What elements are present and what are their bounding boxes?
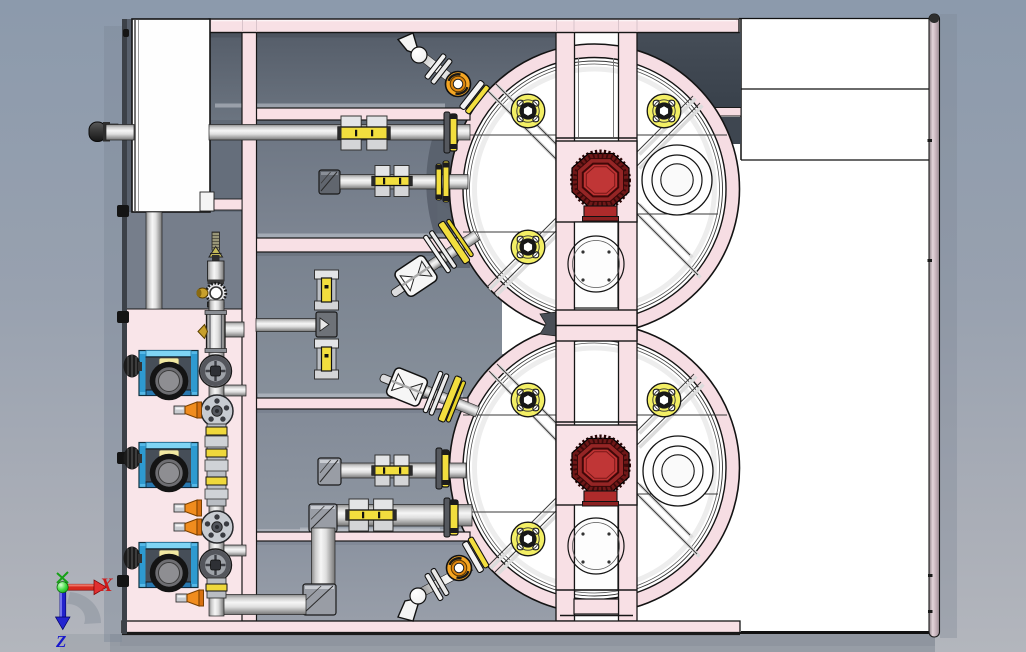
valve AV2 stem	[390, 282, 408, 298]
pink beam sliver right of T1	[706, 108, 741, 117]
valve assembly AV1 stem pipe	[414, 48, 468, 93]
vertical pink column	[242, 32, 257, 621]
pipe B tank entry flange rings	[436, 164, 442, 200]
valve W1 gate valve handwheel	[200, 355, 232, 387]
edge clamp nubs	[117, 205, 129, 587]
tank T1 nozzle flange F1 (yellow)	[511, 94, 545, 128]
tank T2 roof brace seams	[491, 367, 704, 575]
tank T2 manway cover	[643, 436, 713, 506]
rail plate edge lines above motor	[578, 58, 580, 137]
tank T1 manway cover	[642, 145, 712, 215]
valve AV1 yellow gasket ring	[465, 84, 490, 114]
pipe A end cap	[89, 122, 106, 142]
valve assembly AV4 stem pipe	[414, 562, 473, 599]
triad shadow	[67, 592, 101, 624]
triad origin ball (green)	[57, 582, 68, 593]
valve AV3 yellow ring 1	[438, 375, 462, 422]
pipe C tank entry flange rings	[436, 448, 442, 489]
agitator motor M2 (red) on tank T2	[572, 438, 629, 506]
injector J1 orange injector cone	[174, 402, 202, 418]
frame bay bottom	[256, 541, 574, 621]
platform divider line 2	[741, 159, 929, 161]
dark pipe elbow stub left of center rail	[540, 312, 557, 336]
frame bay with feed pipes	[210, 120, 574, 238]
valve AV4 handwheel funnel	[398, 598, 420, 621]
vertical drop pipe under control box	[146, 212, 162, 309]
white deck between tanks right of rails	[637, 240, 741, 632]
coupling CP-V1 vertical union coupling	[315, 270, 339, 310]
platform left edge line	[740, 18, 742, 160]
bearing plate below motor M2	[575, 505, 619, 590]
left frame edge	[122, 19, 127, 634]
vertical standpipe right edge	[929, 14, 940, 637]
valve AV2 white flange 1	[423, 235, 451, 274]
valve AV4 outlet flange	[462, 541, 484, 573]
valve AV1 ball	[411, 47, 427, 63]
frame bay upper-left (dark)	[210, 32, 574, 120]
horizontal beam y108	[256, 108, 470, 120]
wire pipe D horizontal run	[337, 505, 472, 527]
valve AV3 yellow ring 2	[446, 380, 466, 422]
standpipe weld marks	[928, 139, 933, 613]
top frame bar	[209, 19, 739, 33]
valve AV4 flange disk 2	[430, 568, 449, 596]
pink sliver right of box footer	[214, 199, 242, 210]
horizontal beam y532	[256, 532, 470, 541]
manifold branch stub 2	[224, 545, 246, 556]
coupling CP-A on pipe A union coupling	[338, 116, 390, 150]
small white footer under box	[200, 192, 214, 211]
relief valve RV1 threaded stem	[212, 232, 220, 250]
wire bottom pipe run to manifold	[220, 595, 306, 615]
flange FD1 blind flange disk	[201, 395, 233, 427]
valve AV4 ball	[410, 588, 426, 604]
wire pipe C horizontal run	[341, 463, 466, 478]
frame bay lower-mid	[256, 409, 574, 529]
rail cross line	[556, 421, 637, 423]
valve AV3 white flange 1	[423, 371, 444, 413]
shadow block below pipe B at tank T1	[437, 200, 470, 268]
svg-text:Z: Z	[55, 632, 66, 651]
pump bay mounting plate	[126, 309, 242, 621]
tank T2 nozzle flange F3 (yellow)	[511, 522, 545, 556]
wire pipe A horizontal run	[209, 125, 470, 141]
strip left of white box	[126, 19, 132, 212]
injector J2 orange injector cone	[174, 500, 202, 516]
dosing pump P1	[124, 351, 199, 398]
tank T1 nozzle flange F3 (yellow)	[511, 230, 545, 264]
tank T2 nozzle flange F1 (yellow)	[511, 383, 545, 417]
relief valve RV1 handwheel	[206, 283, 226, 303]
coupling CP-C on pipe C union coupling	[372, 455, 412, 486]
flange FD2 blind flange disk	[201, 511, 233, 543]
horizontal beam y238	[256, 238, 462, 252]
coupling CP-V2 vertical union coupling	[315, 339, 339, 379]
platform divider line 1	[741, 88, 929, 90]
center rail right	[619, 32, 638, 621]
valve AV2 yellow ring 2	[446, 219, 474, 258]
relief valve RV1 body	[212, 255, 220, 263]
manifold fitting stack	[205, 424, 228, 506]
elbow E-D upper pipe elbow	[309, 504, 337, 532]
tank T1 shell rim	[450, 44, 740, 334]
wire pipe D vertical drop	[312, 528, 336, 588]
valve AV4 orange butterfly valve	[447, 556, 472, 581]
coupling CP-B on pipe B union coupling	[372, 166, 412, 197]
svg-text:X: X	[99, 575, 114, 596]
injector J3 orange injector cone	[174, 519, 202, 535]
relief valve RV1 base	[208, 302, 225, 307]
valve AV1 orange butterfly valve	[446, 72, 471, 97]
manifold bottom fitting	[206, 578, 227, 598]
white strip between center rails	[574, 32, 619, 632]
frame bay mid	[256, 252, 574, 398]
inter-tank rung	[556, 310, 637, 341]
bay left of column	[122, 212, 242, 309]
standpipe top cap	[929, 14, 939, 23]
agitator mount plate tank T2	[556, 425, 637, 505]
manifold branch stub 1	[224, 385, 246, 396]
dark pocket above tank T1 right	[637, 32, 741, 107]
dosing pump P3	[124, 543, 199, 590]
pipe A tank entry flange rings	[444, 112, 450, 153]
wire pipe B horizontal run	[340, 175, 468, 190]
valve AV2 body	[393, 254, 439, 298]
valve AV4 flange disk 1	[424, 573, 443, 601]
bearing plate below motor M1	[575, 222, 619, 308]
shadow right of standpipe	[940, 14, 957, 638]
valve AV2 yellow ring 1	[438, 221, 471, 265]
valve W2 gate valve handwheel	[200, 549, 232, 581]
floor shadow under skid	[110, 634, 935, 652]
valve assembly AV3 diagonal pipe	[407, 379, 480, 417]
wire branch stub from column to cross	[256, 319, 318, 332]
bay inner shadows	[210, 33, 574, 38]
triad Z axis (blue)	[55, 590, 70, 651]
agitator mount plate tank T1	[556, 141, 637, 222]
platform bottom edge	[735, 631, 931, 634]
bottom frame bar	[122, 621, 740, 633]
inline pump IP1 drum at manifold top	[198, 311, 244, 353]
bottom rung between rails	[574, 599, 619, 614]
cross fitting X1	[316, 312, 337, 337]
pipe D tank entry flange rings	[444, 498, 450, 537]
coupling CP-D on pipe D union coupling	[346, 499, 396, 531]
dark pocket right of T1	[706, 117, 741, 144]
triad Y axis marker (green cross)	[57, 572, 68, 583]
shadow crescent along tank T1 left rim	[426, 138, 457, 241]
relief valve RV1 brass port	[197, 288, 208, 298]
valve assembly AV2 diagonal pipe	[412, 231, 479, 281]
elbow E-D lower pipe elbow	[303, 584, 336, 615]
manifold vertical header pipe	[209, 300, 224, 616]
valve AV3 white flange 2	[429, 373, 450, 415]
valve AV1 outlet flange	[459, 80, 485, 110]
darker pocket right of control box	[210, 120, 242, 212]
tank T2 nozzle flange F2 (yellow)	[647, 383, 681, 417]
valve AV2 white flange 2	[429, 230, 457, 269]
tank T1 nozzle flange F2 (yellow)	[647, 94, 681, 128]
elbow E-C pipe elbow	[318, 458, 341, 485]
relief valve RV1 spring cone	[209, 247, 223, 258]
elbow E-B pipe elbow	[319, 170, 340, 194]
wire pipe A left stub	[106, 125, 134, 141]
agitator motor M1 (red) on tank T1	[572, 153, 629, 221]
valve AV1 flange disk 2	[430, 58, 452, 85]
triad X axis (red)	[67, 575, 114, 596]
rail cross line bottom	[556, 589, 637, 591]
highlight strips above beams	[215, 104, 463, 532]
tank T2 shell rim	[450, 323, 740, 613]
valve AV3 body	[385, 367, 429, 408]
valve AV3 stem	[379, 373, 397, 386]
tank T1 roof brace seams	[490, 86, 703, 296]
white platform table right side	[700, 18, 929, 632]
dosing pump P2	[124, 443, 199, 490]
valve AV1 handwheel funnel	[398, 33, 420, 55]
injector J4 orange injector cone	[176, 590, 204, 606]
white deck wedge between tanks left of rails	[502, 298, 556, 354]
rail cross line	[556, 137, 637, 139]
center rail left	[556, 32, 575, 621]
horizontal beam y398	[256, 398, 468, 409]
valve AV1 flange disk 1	[424, 53, 446, 80]
white control box top-left	[132, 19, 210, 212]
shadow left of frame	[104, 26, 122, 642]
valve AV4 yellow gasket ring	[468, 536, 490, 568]
